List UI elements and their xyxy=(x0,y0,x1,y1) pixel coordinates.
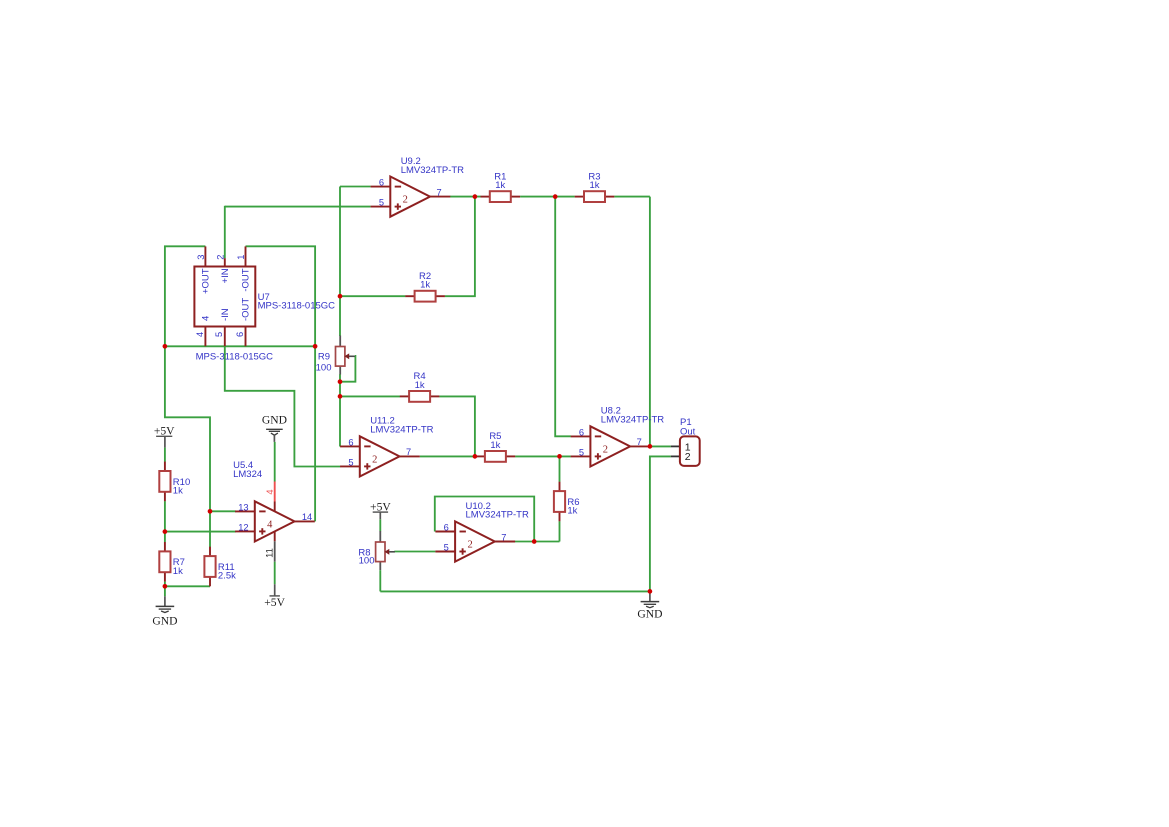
svg-text:7: 7 xyxy=(501,532,506,542)
svg-text:1k: 1k xyxy=(420,280,430,291)
svg-text:5: 5 xyxy=(379,198,384,208)
svg-text:MPS-3118-015GC: MPS-3118-015GC xyxy=(196,351,274,362)
svg-text:5: 5 xyxy=(348,457,353,467)
svg-text:1k: 1k xyxy=(589,180,599,191)
svg-text:-IN: -IN xyxy=(220,308,231,321)
svg-text:4: 4 xyxy=(267,519,273,530)
svg-text:2: 2 xyxy=(216,255,226,260)
svg-text:6: 6 xyxy=(235,332,245,337)
svg-text:7: 7 xyxy=(437,187,442,197)
svg-text:100: 100 xyxy=(316,363,332,374)
svg-text:6: 6 xyxy=(379,178,384,188)
svg-text:13: 13 xyxy=(238,502,248,512)
svg-text:4: 4 xyxy=(265,489,275,494)
svg-text:LM324: LM324 xyxy=(233,469,262,480)
svg-text:2: 2 xyxy=(403,195,408,206)
svg-text:14: 14 xyxy=(302,512,312,522)
svg-text:12: 12 xyxy=(238,523,248,533)
svg-text:LMV324TP-TR: LMV324TP-TR xyxy=(370,425,433,436)
svg-text:1k: 1k xyxy=(567,506,577,517)
svg-text:6: 6 xyxy=(579,427,584,437)
svg-text:+IN: +IN xyxy=(220,268,231,283)
svg-text:1: 1 xyxy=(236,255,246,260)
svg-text:5: 5 xyxy=(214,332,224,337)
svg-text:GND: GND xyxy=(152,615,177,628)
svg-text:Out: Out xyxy=(680,426,696,437)
svg-text:-OUT: -OUT xyxy=(241,298,252,321)
svg-text:5: 5 xyxy=(579,447,584,457)
svg-text:1k: 1k xyxy=(173,566,183,577)
svg-text:1k: 1k xyxy=(495,180,505,191)
svg-text:4: 4 xyxy=(195,332,205,337)
svg-text:4: 4 xyxy=(201,316,212,321)
svg-text:1k: 1k xyxy=(490,440,500,451)
svg-text:MPS-3118-015GC: MPS-3118-015GC xyxy=(258,301,336,312)
svg-text:GND: GND xyxy=(262,414,287,427)
svg-text:2.5k: 2.5k xyxy=(218,571,236,582)
svg-text:LMV324TP-TR: LMV324TP-TR xyxy=(601,415,664,426)
svg-text:R9: R9 xyxy=(318,352,330,363)
svg-text:7: 7 xyxy=(637,437,642,447)
svg-text:6: 6 xyxy=(348,437,353,447)
svg-text:2: 2 xyxy=(467,539,472,550)
svg-text:3: 3 xyxy=(196,255,206,260)
svg-text:2: 2 xyxy=(372,454,377,465)
svg-text:2: 2 xyxy=(603,444,608,455)
svg-text:1k: 1k xyxy=(415,380,425,391)
svg-text:100: 100 xyxy=(359,556,375,567)
svg-text:+OUT: +OUT xyxy=(201,268,212,294)
svg-text:-OUT: -OUT xyxy=(241,268,252,291)
svg-text:LMV324TP-TR: LMV324TP-TR xyxy=(401,165,464,176)
svg-text:GND: GND xyxy=(637,607,662,620)
svg-text:2: 2 xyxy=(685,451,691,463)
svg-text:6: 6 xyxy=(444,522,449,532)
svg-text:11: 11 xyxy=(265,548,275,558)
svg-text:5: 5 xyxy=(444,542,449,552)
svg-text:+5V: +5V xyxy=(264,596,285,609)
svg-text:7: 7 xyxy=(406,447,411,457)
svg-text:LMV324TP-TR: LMV324TP-TR xyxy=(466,510,529,521)
svg-text:1k: 1k xyxy=(173,486,183,497)
